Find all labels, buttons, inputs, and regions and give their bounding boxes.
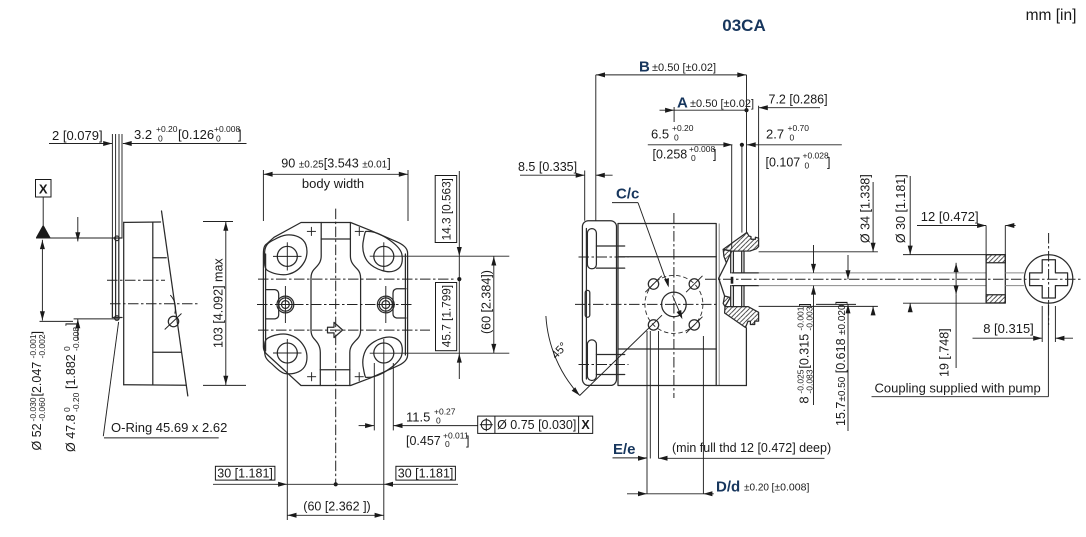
svg-text:[0.258: [0.258 [653, 148, 688, 162]
svg-text:D/d: D/d [716, 479, 740, 496]
svg-text:+0.20: +0.20 [156, 124, 178, 134]
svg-text:2 [0.079]: 2 [0.079] [52, 128, 103, 143]
svg-text:mm [in]: mm [in] [1026, 7, 1077, 24]
svg-text:6.5: 6.5 [651, 127, 669, 142]
svg-text:]: ] [30, 331, 44, 334]
svg-text:+0.20: +0.20 [672, 123, 694, 133]
svg-text:[0.457: [0.457 [406, 434, 441, 448]
svg-text:X: X [581, 418, 590, 432]
svg-text:0: 0 [674, 133, 679, 143]
svg-text:[1.882: [1.882 [64, 354, 78, 389]
svg-text:E/e: E/e [613, 441, 636, 458]
svg-text:11.5: 11.5 [406, 410, 430, 425]
svg-text:3.2: 3.2 [134, 127, 152, 142]
svg-text:Ø 47.8: Ø 47.8 [64, 414, 78, 452]
svg-text:30 [1.181]: 30 [1.181] [398, 466, 454, 480]
svg-text:03CA: 03CA [722, 16, 765, 35]
svg-text:19 [.748]: 19 [.748] [938, 328, 952, 377]
svg-text:15.7±0.50 [0.618 ±0.020]: 15.7±0.50 [0.618 ±0.020] [834, 301, 848, 426]
svg-text:0: 0 [158, 134, 163, 144]
svg-text:8 [0.315]: 8 [0.315] [983, 321, 1034, 336]
svg-text:O-Ring 45.69 x 2.62: O-Ring 45.69 x 2.62 [111, 420, 227, 435]
svg-text:0: 0 [691, 153, 696, 163]
svg-text:0: 0 [216, 134, 221, 144]
svg-text:]: ] [713, 148, 716, 162]
svg-text:±0.50 [±0.02]: ±0.50 [±0.02] [690, 98, 754, 110]
svg-text:+0.70: +0.70 [788, 123, 810, 133]
svg-text:[0.315: [0.315 [798, 334, 812, 369]
svg-text:-0.002: -0.002 [37, 334, 47, 358]
svg-text:-0.008: -0.008 [71, 327, 81, 351]
svg-text:14.3 [0.563]: 14.3 [0.563] [439, 178, 453, 240]
svg-text:(60 [2.362 ]): (60 [2.362 ]) [303, 499, 370, 513]
svg-text:body width: body width [302, 176, 364, 191]
svg-text:-0.060: -0.060 [37, 397, 47, 421]
svg-text:A: A [677, 95, 688, 112]
svg-text:8.5 [0.335]: 8.5 [0.335] [518, 160, 577, 174]
svg-text:±0.20: ±0.20 [744, 483, 769, 494]
svg-text:±0.50 [±0.02]: ±0.50 [±0.02] [652, 62, 716, 74]
svg-text:[2.047: [2.047 [30, 362, 44, 397]
svg-text:90 ±0.25[3.543 ±0.01]: 90 ±0.25[3.543 ±0.01] [281, 157, 390, 171]
svg-text:0: 0 [790, 133, 795, 143]
svg-text:[0.107: [0.107 [766, 156, 801, 170]
svg-text:X: X [39, 182, 48, 197]
svg-text:Coupling supplied with pump: Coupling supplied with pump [875, 381, 1041, 396]
svg-text:+0.008: +0.008 [214, 124, 241, 134]
svg-text:[±0.008]: [±0.008] [772, 482, 810, 494]
svg-text:-0.003: -0.003 [805, 306, 815, 330]
svg-text:30 [1.181]: 30 [1.181] [217, 466, 273, 480]
svg-text:]: ] [827, 156, 830, 170]
svg-text:B: B [639, 59, 650, 76]
svg-text:12 [0.472]: 12 [0.472] [921, 209, 979, 224]
svg-text:+0.028: +0.028 [803, 151, 830, 161]
svg-text:0: 0 [445, 439, 450, 449]
svg-text:[0.126: [0.126 [178, 127, 214, 142]
svg-text:2.7: 2.7 [766, 127, 784, 142]
svg-text:C/c: C/c [616, 186, 639, 203]
svg-text:]: ] [238, 127, 242, 142]
svg-text:-0.083: -0.083 [805, 369, 815, 393]
svg-text:Ø 34 [1.338]: Ø 34 [1.338] [859, 174, 873, 243]
svg-text:7.2 [0.286]: 7.2 [0.286] [769, 93, 828, 107]
svg-text:45.7 [1.799]: 45.7 [1.799] [440, 285, 454, 347]
svg-text:]: ] [64, 323, 78, 326]
svg-text:(60 [2.384]): (60 [2.384]) [479, 270, 493, 334]
svg-text:0: 0 [436, 416, 441, 426]
svg-text:0: 0 [805, 161, 810, 171]
svg-text:Ø 0.75 [0.030]: Ø 0.75 [0.030] [497, 418, 576, 432]
svg-text:8: 8 [797, 396, 812, 403]
svg-text:Ø 30 [1.181]: Ø 30 [1.181] [894, 174, 908, 243]
svg-text:Ø 52: Ø 52 [30, 423, 44, 450]
svg-text:]: ] [466, 434, 469, 448]
svg-text:(min full thd 12 [0.472] deep): (min full thd 12 [0.472] deep) [672, 441, 831, 455]
svg-text:-0.20: -0.20 [71, 392, 81, 412]
svg-text:103 [4.092] max: 103 [4.092] max [212, 258, 226, 348]
svg-text:]: ] [798, 303, 812, 306]
